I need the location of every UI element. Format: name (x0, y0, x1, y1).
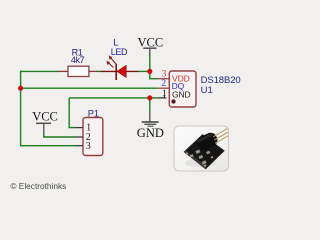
wire VCC drop (149, 54, 151, 72)
wire GND symbol drop (149, 98, 151, 112)
shadow (185, 159, 217, 168)
module pins (213, 129, 228, 144)
wire LED to VCC junction (138, 70, 150, 72)
svg-text:3: 3 (86, 141, 91, 152)
wire left rail to P1 pin3 (21, 145, 75, 147)
svg-text:LED: LED (111, 47, 128, 57)
svg-text:P1: P1 (88, 108, 99, 118)
pads on PCB (190, 143, 211, 165)
svg-text:1: 1 (162, 88, 167, 99)
P1 pin 3 stub (75, 145, 83, 147)
wire GND rail (69, 97, 158, 99)
photo card of DS18B20 module (174, 126, 229, 171)
ground GND (137, 111, 164, 140)
sensor body TO-92 (195, 131, 220, 153)
wire R1 to LED (96, 70, 101, 72)
wire GND rail to P1 pin1 (69, 98, 75, 128)
svg-text:4k7: 4k7 (71, 55, 85, 65)
svg-text:VCC: VCC (138, 35, 164, 49)
wire DQ rail (21, 87, 158, 89)
svg-text:© Electrothinks: © Electrothinks (10, 181, 66, 191)
svg-text:L: L (113, 37, 118, 47)
U1 pin 3 VDD stub (158, 78, 170, 80)
wire left vertical rail (20, 71, 22, 147)
power VCC (second) (32, 110, 58, 134)
wire junction to VDD pin (150, 71, 158, 78)
junction dot at VCC/LED node (147, 69, 152, 74)
P1 pin 2 stub (75, 136, 83, 138)
U1 pin 1 GND stub (158, 95, 167, 98)
svg-text:U1: U1 (201, 85, 213, 96)
wire VCC2 to P1 pin2 (44, 133, 75, 137)
connector P1 body (83, 118, 103, 156)
power VCC (top) (138, 35, 164, 54)
U1 pin 2 DQ stub (158, 87, 170, 89)
wire top rail left (21, 70, 59, 72)
sensor U1 DS18B20 body (169, 71, 196, 107)
svg-text:VCC: VCC (32, 110, 58, 124)
svg-text:GND: GND (172, 89, 191, 99)
P1 pin 1 stub (75, 127, 83, 129)
junction dot at GND rail node (147, 95, 152, 100)
resistor R1 (59, 66, 97, 76)
junction dot on left rail (18, 86, 23, 91)
LED L (101, 55, 138, 80)
svg-text:GND: GND (137, 126, 164, 140)
PCB board (184, 135, 224, 169)
